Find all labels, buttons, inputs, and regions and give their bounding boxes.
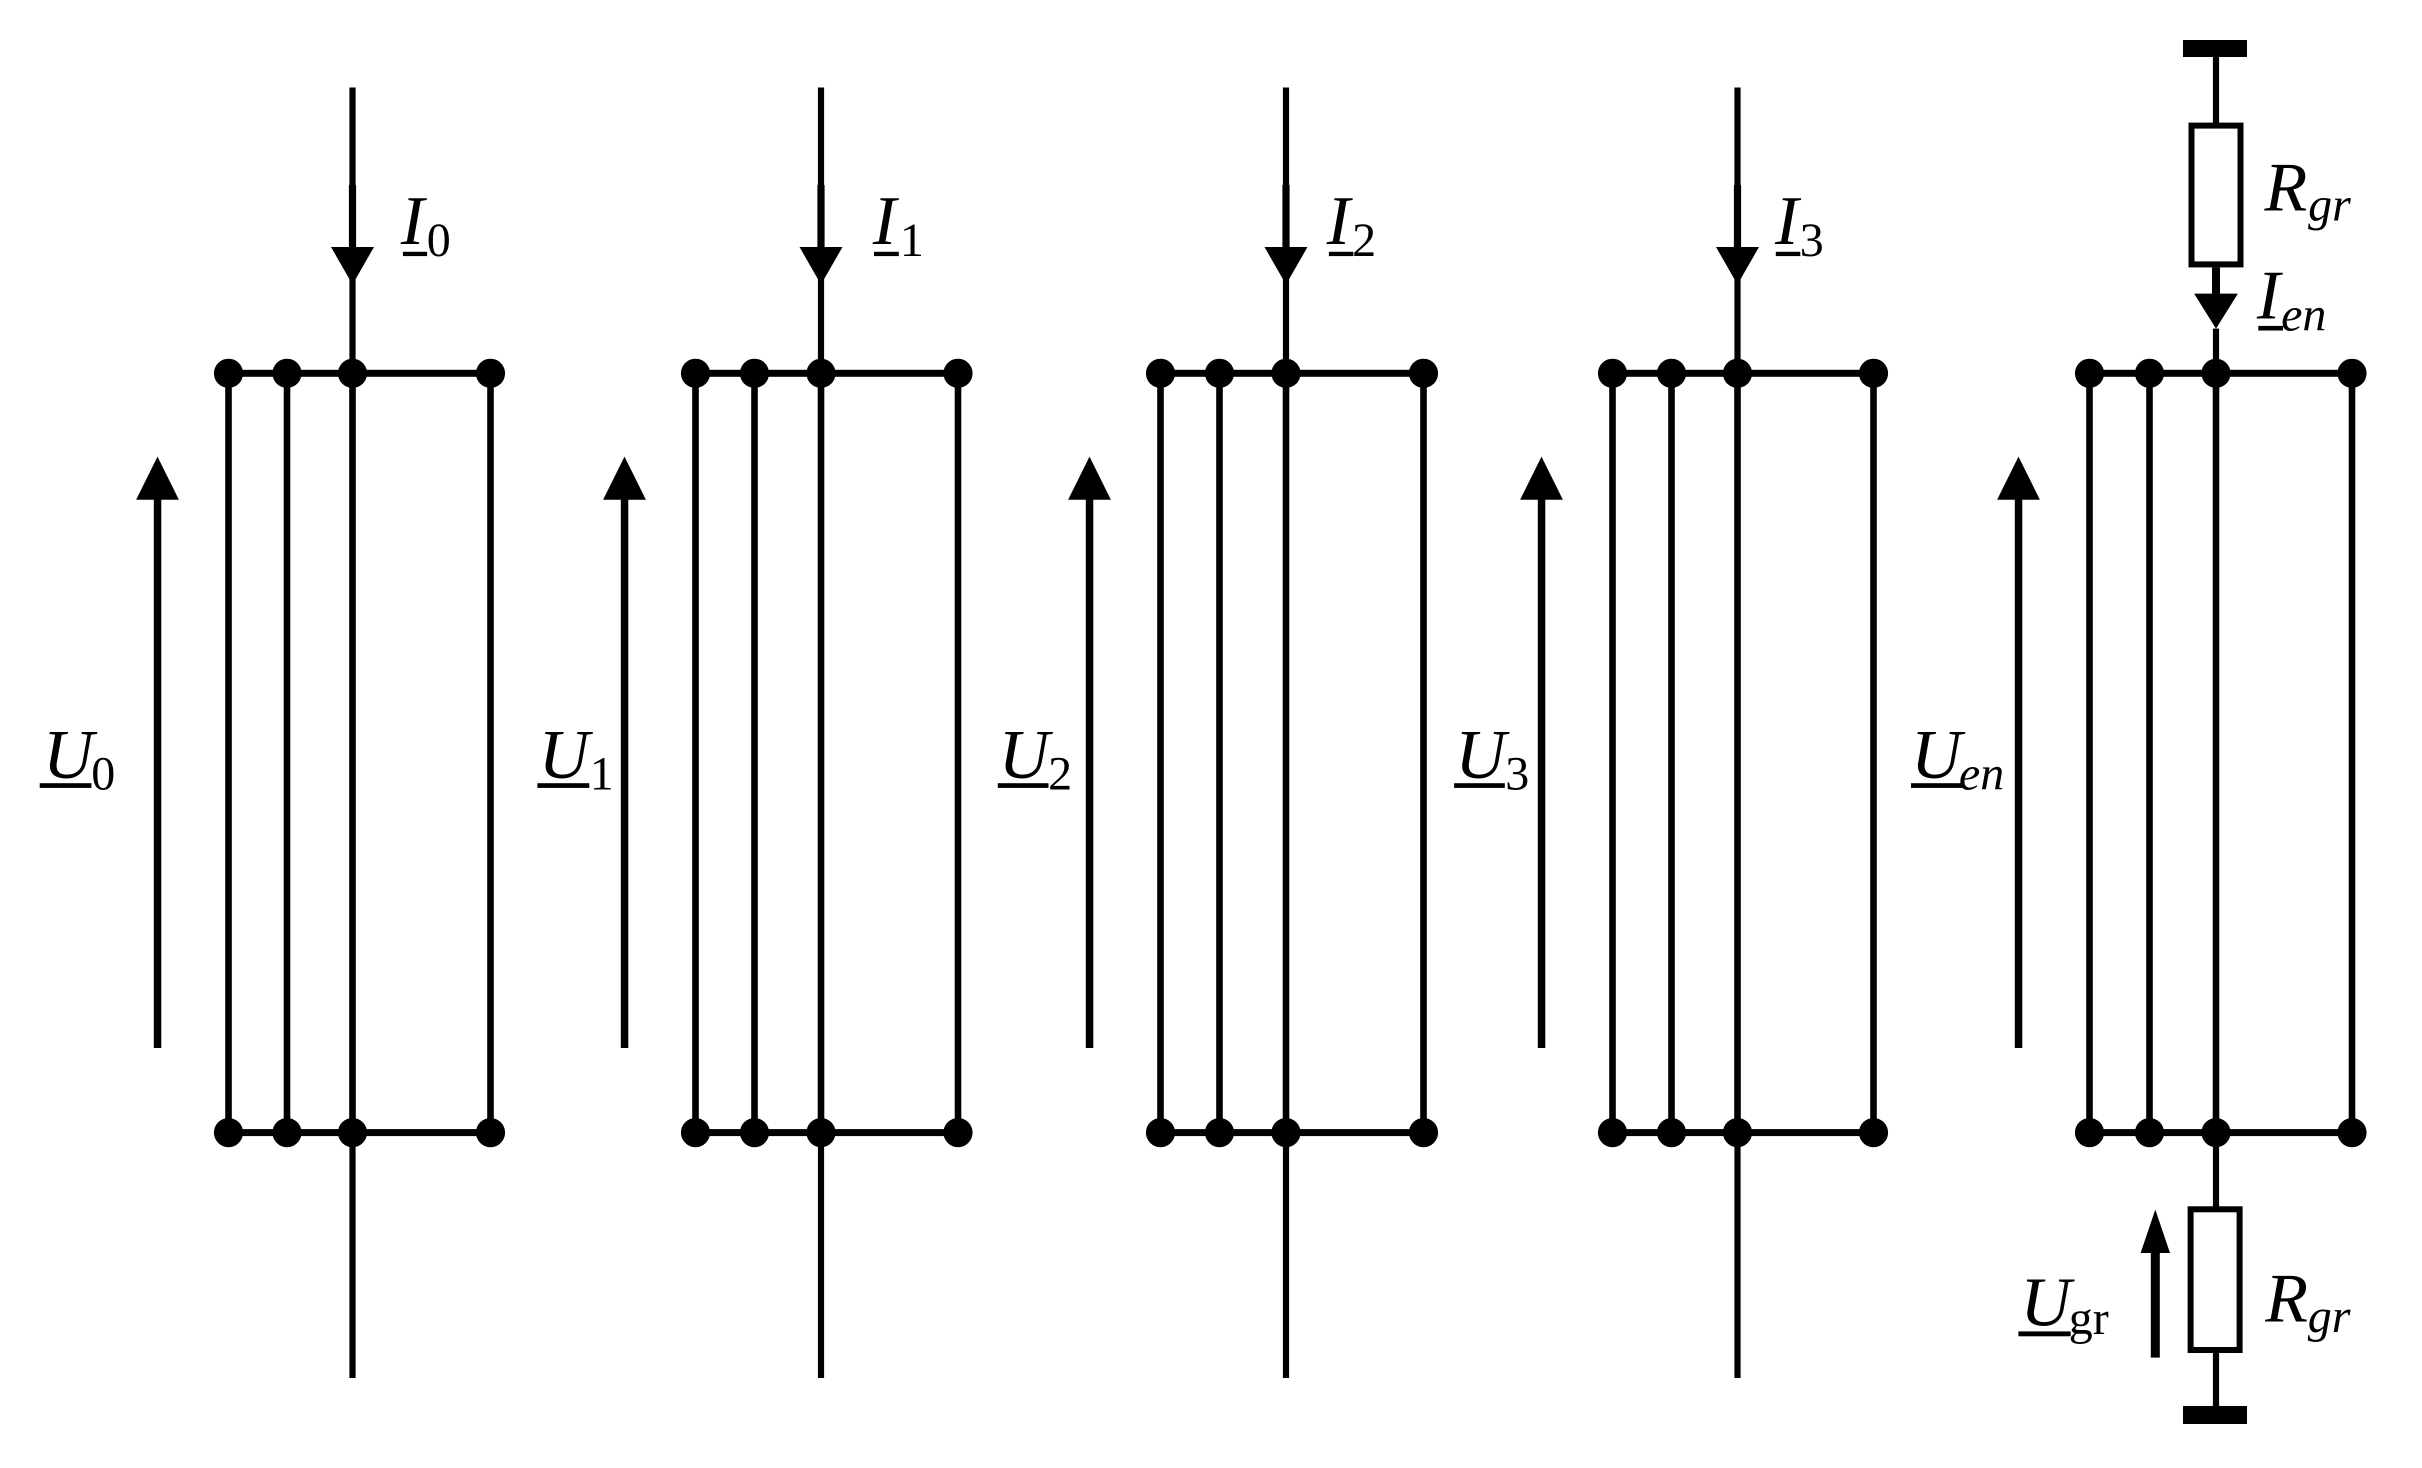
wire: element 1 of section 4	[1609, 373, 1616, 1132]
wire: element 2 of section 5	[2146, 373, 2153, 1132]
wire: arrow shaft of voltage U0	[154, 493, 162, 1048]
wire: element 4 of section 5	[2349, 373, 2356, 1132]
junction: top bus node 4 of section 4	[1859, 359, 1888, 388]
junction: bottom bus node 1 of section 1	[214, 1118, 243, 1147]
junction: bottom bus node 1 of section 3	[1146, 1118, 1175, 1147]
wire: element 2 of section 2	[751, 373, 758, 1132]
svg-text:3: 3	[1505, 747, 1529, 800]
junction: top bus node 1 of section 3	[1146, 359, 1175, 388]
wire: top bus of section 5	[2090, 370, 2353, 377]
junction: bottom bus node 3 of section 3	[1271, 1118, 1300, 1147]
underline of Uen	[1911, 783, 1963, 788]
wire: element 3 (center) of section 3	[1283, 373, 1290, 1132]
wire: input current lead of group 1 (node T0)	[349, 88, 355, 374]
junction: top bus node 1 of section 2	[681, 359, 710, 388]
svg-text:I: I	[1326, 183, 1354, 260]
wire: top bus of section 1	[229, 370, 491, 377]
arrowhead: current I0 direction (down)	[331, 247, 374, 285]
wire: top bus of section 2	[696, 370, 959, 377]
wire: bottom lead of section 1	[349, 1133, 355, 1378]
svg-text:U: U	[1455, 717, 1510, 794]
wire: element 2 of section 1	[284, 373, 291, 1132]
wire: bottom bus of section 2	[696, 1129, 959, 1136]
svg-text:gr: gr	[2308, 1290, 2351, 1343]
junction: top bus node 3 of section 5	[2201, 359, 2230, 388]
svg-text:U: U	[1911, 717, 1966, 794]
wire: element 4 of section 2	[955, 373, 962, 1132]
wire: arrow shaft of voltage U1	[621, 493, 629, 1048]
wire: resistor Rgr to arrowhead of Ien	[2212, 267, 2220, 296]
svg-text:en: en	[1959, 747, 2004, 800]
junction: top bus node 4 of section 1	[476, 359, 505, 388]
junction: bottom bus node 1 of section 5	[2075, 1118, 2104, 1147]
wire: arrow shaft segment of current I1	[817, 185, 824, 250]
junction: top bus node 1 of section 1	[214, 359, 243, 388]
wire: element 2 of section 3	[1216, 373, 1223, 1132]
junction: bottom bus node 3 of section 2	[806, 1118, 835, 1147]
svg-text:0: 0	[427, 214, 451, 267]
arrowhead: current I2 direction (down)	[1265, 247, 1308, 285]
svg-text:U: U	[999, 717, 1054, 794]
svg-text:2: 2	[1048, 747, 1072, 800]
wire: bottom bus of section 3	[1161, 1129, 1424, 1136]
underline of U2	[998, 783, 1049, 788]
junction: bottom bus node 3 of section 1	[338, 1118, 367, 1147]
arrowhead: current I1 direction (down)	[800, 247, 843, 285]
underline of I0	[403, 252, 427, 256]
wire: bottom bus of section 1	[229, 1129, 491, 1136]
underline of I1	[874, 252, 899, 256]
svg-text:U: U	[43, 717, 98, 794]
junction: top bus node 1 of section 5	[2075, 359, 2104, 388]
wire: input current lead of group 3 (node T2)	[1283, 88, 1289, 374]
wire: element 4 of section 1	[487, 373, 494, 1132]
svg-text:2: 2	[1352, 214, 1376, 267]
wire: bottom lead of section 3	[1283, 1133, 1289, 1378]
wire: element 1 of section 3	[1157, 373, 1164, 1132]
wire: element 1 of section 5	[2086, 373, 2093, 1132]
junction: top bus node 2 of section 4	[1657, 359, 1686, 388]
wire: arrow shaft segment of current I2	[1282, 185, 1289, 250]
resistor Rgr (bottom, output)	[2191, 1209, 2240, 1350]
junction: top bus node 3 of section 1	[338, 359, 367, 388]
svg-text:3: 3	[1800, 214, 1824, 267]
underline of U0	[40, 783, 92, 788]
wire: element 4 of section 4	[1870, 373, 1877, 1132]
svg-text:U: U	[539, 717, 594, 794]
svg-text:I: I	[872, 183, 900, 260]
wire: bottom bus to resistor Rgr (bottom)	[2213, 1133, 2219, 1210]
junction: bottom bus node 1 of section 4	[1598, 1118, 1627, 1147]
junction: bottom bus node 4 of section 1	[476, 1118, 505, 1147]
resistor Rgr (top series resistor)	[2192, 126, 2241, 265]
ground (top chassis bar)	[2183, 40, 2247, 57]
wire: top bus of section 3	[1161, 370, 1424, 377]
junction: bottom bus node 2 of section 3	[1205, 1118, 1234, 1147]
arrowhead: voltage U0 (up)	[136, 457, 179, 500]
wire: input current lead of group 4 (node T3)	[1734, 88, 1740, 374]
junction: bottom bus node 2 of section 1	[272, 1118, 301, 1147]
svg-text:gr: gr	[2069, 1292, 2109, 1345]
wire: element 3 (center) of section 5	[2213, 373, 2220, 1132]
junction: bottom bus node 1 of section 2	[681, 1118, 710, 1147]
arrowhead: voltage U2 (up)	[1068, 457, 1111, 500]
wire: element 2 of section 4	[1668, 373, 1675, 1132]
wire: element 1 of section 2	[692, 373, 699, 1132]
junction: top bus node 4 of section 5	[2337, 359, 2366, 388]
wire: arrow shaft of Ugr	[2151, 1249, 2160, 1358]
ground (bottom chassis bar)	[2183, 1406, 2247, 1424]
wire: bottom lead of section 4	[1734, 1133, 1740, 1378]
wire: from top ground to resistor Rgr	[2213, 57, 2219, 126]
wire: bottom bus of section 4	[1613, 1129, 1874, 1136]
junction: top bus node 3 of section 3	[1271, 359, 1300, 388]
junction: top bus node 2 of section 2	[740, 359, 769, 388]
wire: arrow shaft of voltage U2	[1086, 493, 1094, 1048]
underline of Ien	[2258, 326, 2283, 331]
underline of U3	[1454, 783, 1505, 788]
junction: top bus node 3 of section 4	[1723, 359, 1752, 388]
svg-text:R: R	[2264, 150, 2308, 227]
wire: bottom bus of section 5	[2090, 1129, 2353, 1136]
svg-text:I: I	[1774, 183, 1802, 260]
junction: top bus node 4 of section 2	[943, 359, 972, 388]
junction: top bus node 2 of section 3	[1205, 359, 1234, 388]
wire: top bus of section 4	[1613, 370, 1874, 377]
svg-text:gr: gr	[2308, 178, 2351, 231]
wire: element 3 (center) of section 1	[349, 373, 356, 1132]
wire: element 3 (center) of section 2	[818, 373, 825, 1132]
arrowhead: voltage U1 (up)	[603, 457, 646, 500]
junction: bottom bus node 4 of section 5	[2337, 1118, 2366, 1147]
wire: input current lead of group 2 (node T1)	[818, 88, 824, 374]
svg-text:U: U	[2020, 1265, 2075, 1342]
underline of Ugr	[2018, 1331, 2070, 1336]
arrowhead: voltage Ugr (up)	[2141, 1210, 2170, 1253]
svg-text:0: 0	[91, 747, 115, 800]
underline of U1	[537, 783, 589, 788]
junction: top bus node 4 of section 3	[1409, 359, 1438, 388]
arrowhead: current I3 direction (down)	[1716, 247, 1759, 285]
underline of I2	[1329, 252, 1354, 256]
wire: arrow shaft segment of current I0	[349, 185, 356, 250]
junction: top bus node 1 of section 4	[1598, 359, 1627, 388]
junction: bottom bus node 3 of section 5	[2201, 1118, 2230, 1147]
wire: arrow shaft segment of current I3	[1734, 185, 1741, 250]
svg-text:1: 1	[900, 214, 924, 267]
wire: bottom lead of section 2	[818, 1133, 824, 1378]
arrowhead: voltage Uen (up)	[1997, 457, 2040, 500]
svg-text:I: I	[2256, 257, 2284, 334]
underline of I3	[1776, 252, 1801, 256]
wire: element 3 (center) of section 4	[1734, 373, 1741, 1132]
wire: arrow shaft of voltage Uen	[2015, 493, 2023, 1048]
svg-text:1: 1	[590, 747, 614, 800]
junction: bottom bus node 2 of section 2	[740, 1118, 769, 1147]
arrowhead: current Ien direction (down)	[2194, 294, 2238, 329]
junction: bottom bus node 4 of section 4	[1859, 1118, 1888, 1147]
svg-text:en: en	[2281, 289, 2326, 342]
junction: top bus node 2 of section 5	[2135, 359, 2164, 388]
wire: element 4 of section 3	[1420, 373, 1427, 1132]
arrowhead: voltage U3 (up)	[1520, 457, 1563, 500]
svg-text:I: I	[400, 183, 428, 260]
junction: bottom bus node 2 of section 5	[2135, 1118, 2164, 1147]
wire: element 1 of section 1	[225, 373, 232, 1132]
wire: bottom resistor to ground	[2213, 1353, 2219, 1406]
wire: arrow shaft of voltage U3	[1538, 493, 1546, 1048]
junction: bottom bus node 3 of section 4	[1723, 1118, 1752, 1147]
junction: bottom bus node 2 of section 4	[1657, 1118, 1686, 1147]
junction: bottom bus node 4 of section 3	[1409, 1118, 1438, 1147]
wire: Ien arrow tip to top bus node	[2213, 329, 2219, 374]
svg-text:R: R	[2264, 1261, 2308, 1338]
junction: bottom bus node 4 of section 2	[943, 1118, 972, 1147]
junction: top bus node 2 of section 1	[272, 359, 301, 388]
junction: top bus node 3 of section 2	[806, 359, 835, 388]
